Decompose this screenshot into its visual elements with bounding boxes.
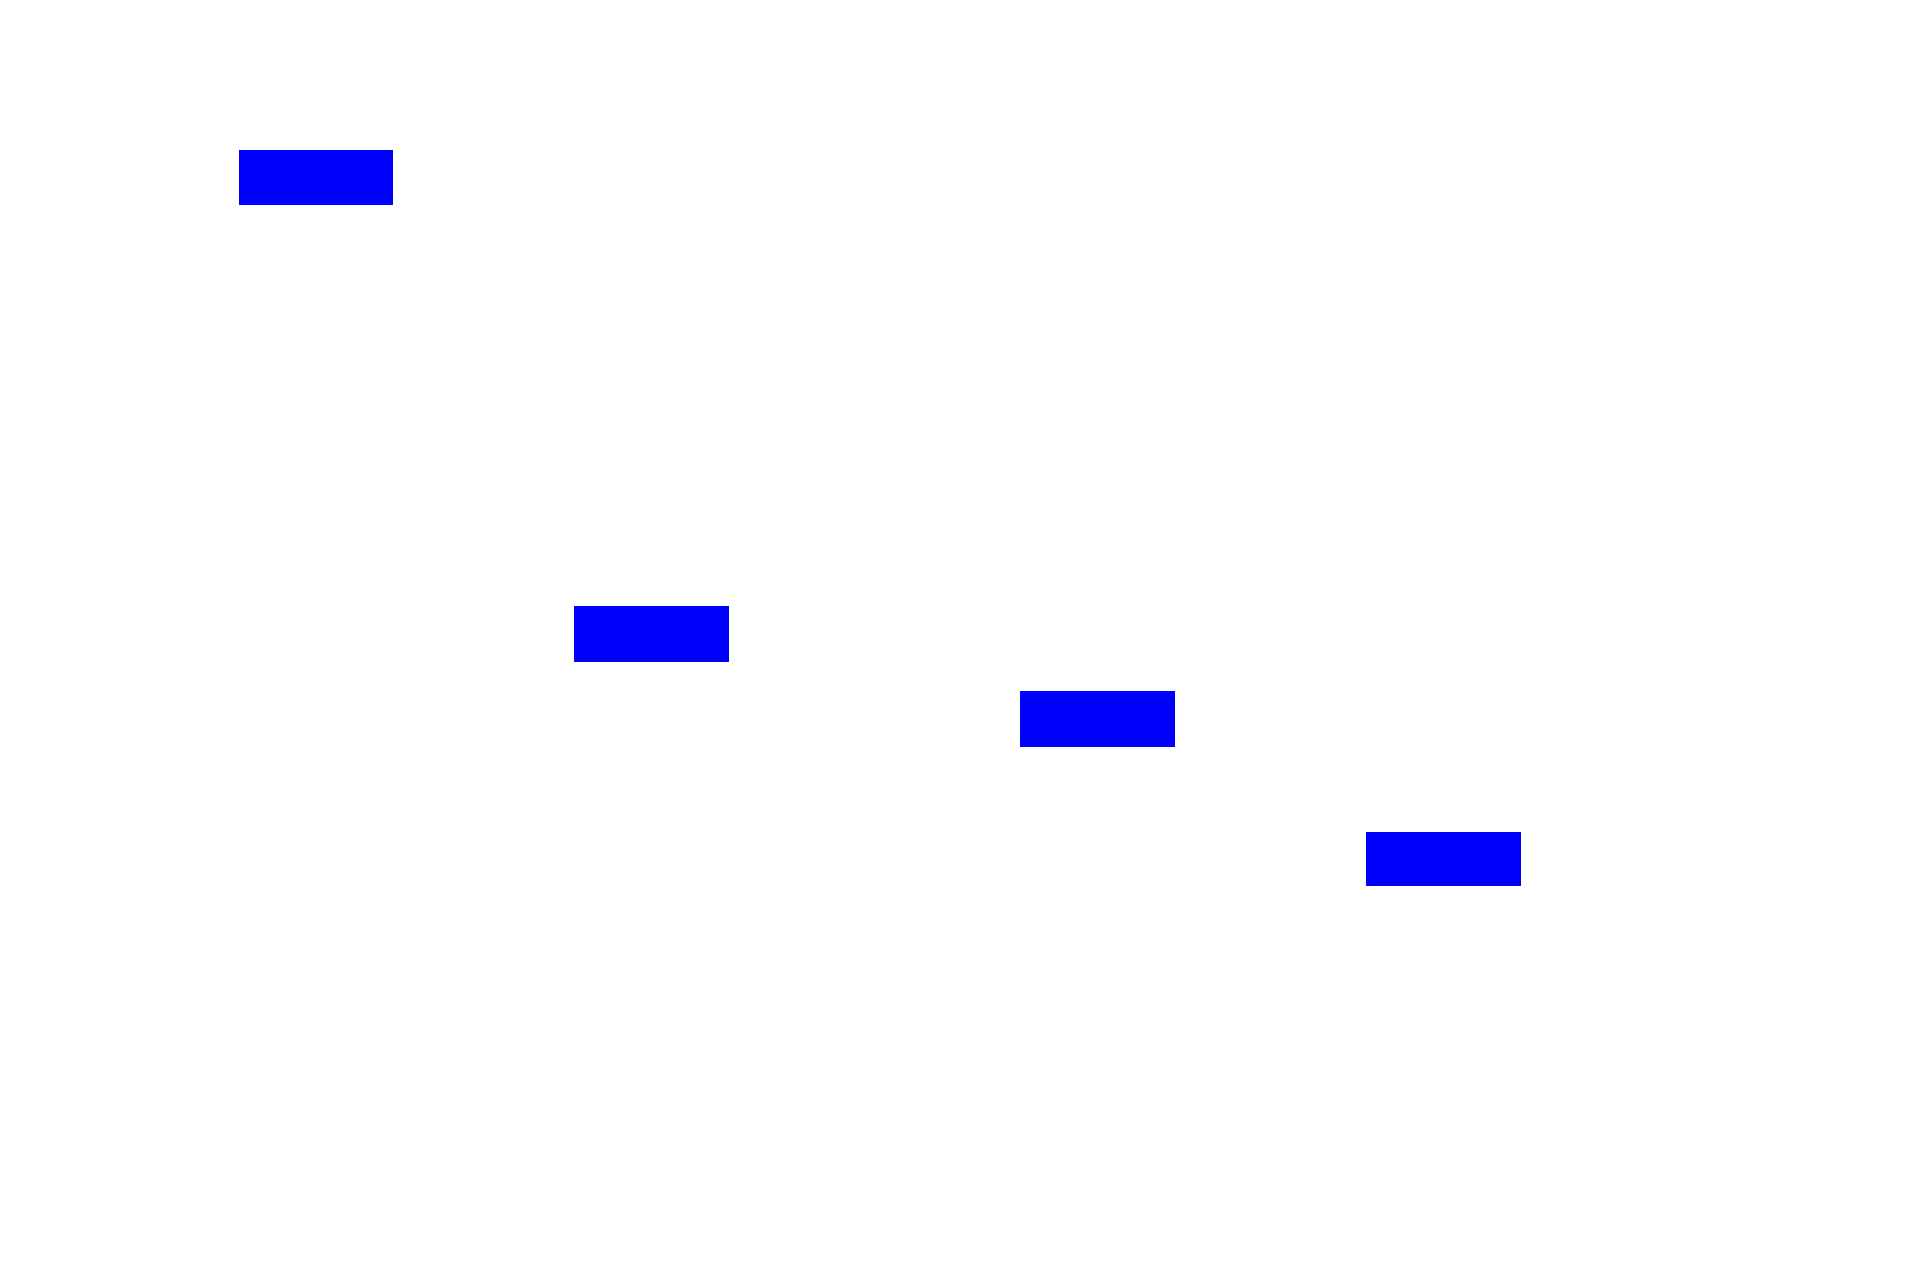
blue rectangle 4 [1366, 832, 1521, 887]
blue rectangle 2 [574, 606, 729, 662]
blue rectangle 3 [1020, 691, 1175, 747]
blue rectangle 1 [239, 150, 393, 205]
